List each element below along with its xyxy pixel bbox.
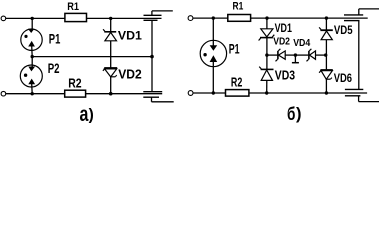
node middle rail / P junction	[31, 55, 34, 58]
wire top rail right segment (b)	[251, 17, 368, 19]
node bottom rail / VD6 junction (b)	[325, 91, 328, 94]
zener diode VD4 (b)	[307, 49, 327, 62]
svg-text:VD3: VD3	[275, 69, 295, 83]
input terminal bottom-left	[1, 91, 6, 96]
resistor R2	[65, 90, 86, 97]
wire top rail right segment	[87, 17, 162, 19]
feedthrough capacitor bottom (b output)	[345, 89, 379, 101]
wire bottom rail right segment	[86, 93, 163, 95]
input terminal top-left	[1, 16, 6, 21]
svg-text:P1: P1	[49, 31, 61, 47]
svg-text:VD1: VD1	[118, 28, 142, 42]
wire top rail left segment (b)	[193, 17, 228, 19]
node bottom rail / P1 junction (b)	[212, 91, 215, 94]
feedthrough capacitor top (output)	[144, 11, 173, 20]
wire right common rail	[151, 20, 153, 91]
node top rail / P1 junction	[31, 17, 34, 20]
arrester P1	[21, 18, 42, 56]
arrester P1 (b)	[200, 18, 226, 93]
resistor R1	[65, 13, 87, 21]
svg-text:): )	[89, 106, 94, 123]
node middle rail / right rail junction	[150, 55, 154, 59]
node middle / VD1-VD2 junction (b)	[265, 53, 268, 56]
svg-text:VD4: VD4	[293, 38, 310, 49]
zener diode VD1 (b)	[259, 18, 275, 55]
node top rail / P1 junction (b)	[212, 16, 215, 19]
zener diode VD3 (b)	[259, 55, 273, 93]
svg-text:VD6: VD6	[334, 71, 353, 85]
chassis connection stub (b)	[292, 55, 299, 63]
svg-text:P2: P2	[48, 61, 60, 76]
svg-text:б: б	[287, 103, 295, 124]
feedthrough capacitor top (b output)	[344, 9, 379, 21]
wire bottom rail left segment (b)	[193, 92, 225, 94]
svg-text:R1: R1	[67, 1, 79, 13]
wire bottom rail left segment	[6, 93, 65, 95]
zener diode VD1	[103, 18, 116, 68]
arrester P2	[20, 57, 42, 94]
wire right common rail (b)	[358, 21, 360, 90]
zener diode VD2 (b)	[276, 49, 296, 62]
wire top rail left segment	[6, 17, 65, 19]
svg-text:VD5: VD5	[334, 23, 353, 37]
resistor R2 (b)	[226, 90, 249, 97]
svg-text:R2: R2	[68, 77, 81, 91]
node bottom rail / P2 junction	[31, 92, 34, 95]
svg-text:R1: R1	[233, 1, 244, 13]
zener diode VD2	[103, 68, 117, 94]
node top rail / VD1 junction	[109, 17, 112, 20]
svg-text:R2: R2	[231, 76, 242, 90]
zener diode VD5 (b)	[319, 18, 333, 55]
input terminal bottom-left (b)	[188, 91, 193, 96]
wire middle segment to VD2 (b)	[267, 54, 278, 56]
zener diode VD6 (b)	[319, 55, 333, 93]
node bottom rail / VD2 junction	[109, 92, 113, 96]
svg-text:VD1: VD1	[275, 21, 293, 35]
input terminal top-left (b)	[188, 16, 193, 21]
resistor R1 (b)	[228, 15, 251, 22]
node top rail / VD5 junction (b)	[325, 16, 328, 19]
svg-text:P1: P1	[229, 41, 240, 57]
feedthrough capacitor bottom (output)	[143, 92, 173, 102]
svg-text:): )	[296, 105, 302, 123]
wire bottom rail right segment (b)	[249, 92, 367, 94]
wire middle rail	[32, 56, 152, 58]
svg-text:VD2: VD2	[273, 37, 290, 48]
node middle / VD5-VD6 rail junction (b)	[324, 53, 327, 56]
node middle / chassis junction (b)	[294, 53, 297, 56]
wire middle segment to VD4 (b)	[295, 54, 308, 56]
svg-text:VD2: VD2	[118, 67, 142, 81]
node top rail / VD1 junction (b)	[265, 16, 268, 19]
node bottom rail / VD3 junction (b)	[265, 91, 268, 94]
